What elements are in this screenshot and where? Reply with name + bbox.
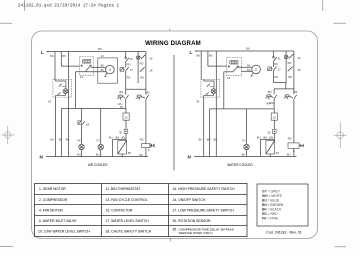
svg-text:15: 15	[124, 115, 128, 119]
svg-text:BU: BU	[207, 138, 211, 142]
wire return run	[59, 109, 70, 157]
svg-text:RD = RED: RD = RED	[262, 212, 278, 216]
wire control bus horizontal	[61, 108, 126, 110]
svg-text:BU: BU	[101, 68, 105, 72]
switch 27 low pressure safety right	[268, 67, 281, 83]
wire ON/OFF to neutral bar	[51, 97, 56, 157]
svg-text:BU: BU	[242, 152, 246, 156]
svg-text:13: 13	[227, 76, 231, 80]
switch 11 bin thermostat right	[273, 57, 281, 67]
svg-text:16: 16	[149, 57, 153, 61]
svg-text:16: 16	[297, 56, 301, 60]
svg-text:18: 18	[297, 68, 301, 72]
svg-text:30: 30	[119, 130, 123, 134]
svg-text:RD: RD	[140, 137, 144, 141]
coil 15 contactor	[123, 113, 129, 120]
svg-text:13: 13	[80, 75, 84, 79]
wire drop to fan cycle control	[61, 52, 79, 67]
motor 1 gear motor right (lamp symbol)	[242, 109, 250, 157]
svg-text:PK: PK	[120, 105, 124, 109]
svg-text:GY: GY	[242, 138, 246, 142]
wire return run right	[207, 109, 218, 157]
control 13 fan cycle control (dashed box)	[80, 56, 94, 79]
svg-text:27: 27	[278, 68, 282, 72]
svg-text:L: L	[190, 50, 193, 55]
svg-text:BU: BU	[59, 138, 63, 142]
wire drop to ON/OFF switch	[50, 52, 55, 80]
wire control bus horizontal right	[210, 108, 275, 110]
wire top phase BN right	[196, 47, 294, 52]
valve 6 condenser water valve right	[287, 137, 304, 157]
relay 35 compressor time delay right	[266, 141, 279, 157]
svg-text:PK: PK	[77, 138, 81, 142]
wire fan feed upper	[91, 63, 106, 67]
switch 10 low water level right (float)	[265, 89, 277, 109]
node L (line terminal, right circuit)	[190, 50, 198, 55]
wire drop to thermostat chain right	[273, 51, 275, 57]
svg-text:10. LOW WATER LEVEL SWITCH: 10. LOW WATER LEVEL SWITCH	[38, 230, 90, 234]
svg-text:BU: BU	[247, 68, 251, 72]
svg-text:RD: RD	[288, 137, 292, 141]
wire bypass branch	[109, 136, 126, 157]
wire fan-control drop	[75, 72, 77, 109]
svg-text:WATER COOLED: WATER COOLED	[227, 163, 253, 167]
svg-text:PK = PINK: PK = PINK	[262, 216, 279, 220]
switch 18 chute safety chain B	[140, 52, 153, 95]
svg-text:BU: BU	[214, 138, 218, 142]
svg-text:GY = GREY: GY = GREY	[262, 189, 281, 193]
wire to contactor right	[273, 109, 275, 113]
svg-text:GY: GY	[96, 138, 100, 142]
svg-text:24: 24	[48, 100, 52, 104]
coil 15 contactor right	[269, 101, 277, 120]
registration mark right	[334, 122, 347, 148]
svg-text:BK: BK	[294, 90, 298, 94]
colour code box	[257, 184, 308, 226]
wire junction level switches	[126, 88, 146, 90]
svg-text:11: 11	[130, 57, 133, 61]
svg-text:16. HIGH PRESSURE SAFETY SWI: 16. HIGH PRESSURE SAFETY SWITCH	[173, 187, 236, 191]
wire junction level switches right	[274, 88, 294, 90]
svg-text:35: 35	[128, 151, 132, 155]
svg-text:BN: BN	[196, 53, 200, 57]
svg-text:BN: BN	[288, 75, 292, 79]
switch 17 water level right (float)	[284, 90, 298, 143]
svg-text:WIRING DIAGRAM: WIRING DIAGRAM	[145, 40, 201, 47]
switch 17 water level (right float)	[136, 90, 150, 143]
wire compressor feed lower right	[241, 68, 252, 72]
svg-text:11: 11	[278, 57, 281, 61]
svg-text:27. LOW PRESSURE SAFETY SWITC: 27. LOW PRESSURE SAFETY SWITCH	[173, 208, 235, 212]
svg-text:24: 24	[196, 100, 200, 104]
svg-text:BU: BU	[66, 138, 70, 142]
svg-text:BN: BN	[270, 136, 274, 140]
svg-text:RD: RD	[140, 61, 144, 65]
switch 18 chute safety right chain	[288, 51, 301, 94]
svg-text:Cod. 241182 - Rev. 01: Cod. 241182 - Rev. 01	[266, 231, 302, 235]
motor 4 fan motor	[104, 65, 114, 76]
svg-text:BN: BN	[122, 136, 126, 140]
svg-text:6. WATER INLET VALVE: 6. WATER INLET VALVE	[39, 219, 77, 223]
svg-text:4. FAN MOTOR: 4. FAN MOTOR	[39, 208, 63, 212]
svg-text:RD: RD	[127, 75, 131, 79]
svg-text:RD: RD	[274, 62, 278, 66]
svg-text:BN: BN	[50, 54, 54, 58]
sensor 30 rotation sensor right	[267, 129, 276, 140]
motor 2 compressor right	[250, 65, 260, 76]
relay 35 compressor time delay	[118, 141, 131, 157]
wire neutral bottom	[46, 156, 148, 158]
svg-text:BK: BK	[101, 63, 105, 67]
svg-text:BU: BU	[287, 153, 291, 157]
svg-text:BU: BU	[140, 153, 144, 157]
svg-text:18. CHUTE SAFETY SWITCH: 18. CHUTE SAFETY SWITCH	[106, 230, 152, 234]
svg-text:BN: BN	[146, 90, 150, 94]
svg-text:BU = BLUE: BU = BLUE	[262, 198, 280, 202]
divider between circuits	[173, 55, 175, 171]
svg-text:13. FAN CYCLE CONTROL: 13. FAN CYCLE CONTROL	[106, 198, 148, 202]
wire fan-control drop right	[224, 72, 233, 109]
svg-text:241182_01.qxd 22/10/2014 17:: 241182_01.qxd 22/10/2014 17:24 Pagina 1	[18, 3, 120, 8]
svg-text:WH = WHITE: WH = WHITE	[262, 194, 283, 198]
wire contactor to sensor	[125, 120, 127, 129]
svg-text:30: 30	[267, 130, 271, 134]
wire top phase BN	[47, 47, 146, 52]
svg-text:18: 18	[86, 122, 90, 126]
valve 6 water inlet coil	[140, 137, 155, 157]
svg-text:WH: WH	[269, 101, 273, 105]
switch 18 chute safety (connector + blade)	[78, 109, 90, 145]
svg-text:BU: BU	[257, 136, 261, 140]
wire neutral bottom right	[194, 156, 297, 158]
svg-text:RD: RD	[127, 63, 131, 67]
svg-text:11. BIN THERMOSTAT: 11. BIN THERMOSTAT	[106, 187, 141, 191]
wire drop to thermostat chain	[125, 52, 127, 58]
svg-text:27: 27	[130, 68, 134, 72]
valve coil 6 water inlet (left lamp symbol)	[77, 138, 84, 156]
wire compressor feed upper right	[238, 63, 252, 67]
page frame	[32, 31, 318, 239]
svg-text:BU: BU	[51, 138, 55, 142]
svg-text:35: 35	[276, 151, 280, 155]
svg-text:BN: BN	[120, 90, 124, 94]
wire ON/OFF to neutral right	[199, 97, 204, 156]
svg-text:RD: RD	[274, 75, 278, 79]
svg-text:L: L	[41, 50, 44, 55]
svg-text:RD: RD	[288, 61, 292, 65]
wire fan feed lower	[76, 68, 107, 72]
svg-text:BN: BN	[98, 47, 102, 51]
wire neutral through-run	[68, 52, 70, 157]
svg-text:BN: BN	[246, 47, 250, 51]
svg-text:BN = BROWN: BN = BROWN	[262, 203, 284, 207]
svg-text:BK: BK	[247, 63, 251, 67]
svg-text:BN: BN	[209, 53, 213, 57]
svg-text:BN: BN	[268, 90, 272, 94]
switch 24 ON/OFF right (dashed enclosure with lamp)	[196, 79, 219, 103]
control 13 fan cycle control right (dashed box)	[227, 58, 242, 81]
svg-text:BN: BN	[62, 54, 66, 58]
svg-text:BN: BN	[116, 136, 120, 140]
svg-text:BK = BLACK: BK = BLACK	[262, 207, 282, 211]
svg-text:15: 15	[273, 115, 277, 119]
wire drop to fan cycle control right	[208, 51, 227, 66]
registration mark left	[2, 126, 15, 144]
svg-text:BN: BN	[140, 76, 144, 80]
svg-text:15. CONTACTOR: 15. CONTACTOR	[106, 208, 133, 212]
enclosure fan unit (solid box)	[98, 54, 118, 83]
svg-text:AIR COOLED: AIR COOLED	[88, 163, 108, 167]
switch 16 high pressure safety right	[285, 51, 301, 83]
svg-text:SERVICE STAFF ONLY): SERVICE STAFF ONLY)	[179, 231, 213, 235]
switch 24 ON/OFF (dashed enclosure with lamp)	[48, 79, 72, 103]
wire drop to ON/OFF right	[196, 51, 201, 79]
switch 16 high pressure safety	[137, 52, 153, 84]
svg-text:2. COMPRESSOR: 2. COMPRESSOR	[39, 198, 68, 202]
svg-text:1. GEAR MOTOR: 1. GEAR MOTOR	[39, 187, 66, 191]
switch 11 bin thermostat	[125, 57, 133, 67]
switch 17 water level switch (float)	[117, 89, 129, 108]
svg-text:BN: BN	[264, 136, 268, 140]
svg-text:30. ROTATION SENSOR: 30. ROTATION SENSOR	[173, 219, 211, 223]
svg-text:BU: BU	[96, 152, 100, 156]
svg-text:35.: 35.	[173, 227, 178, 231]
wire neutral through-run right	[215, 51, 217, 157]
sensor 30 rotation sensor	[119, 129, 128, 140]
switch 27 low pressure safety (connector + blade)	[120, 67, 133, 89]
motor 1 gear motor (lamp symbol)	[96, 109, 104, 157]
wire jog to level switches right	[274, 83, 286, 89]
svg-text:BU: BU	[199, 138, 203, 142]
svg-text:BU: BU	[109, 136, 113, 140]
svg-text:24. ON/OFF SWITCH: 24. ON/OFF SWITCH	[173, 198, 206, 202]
svg-text:17. WATER LEVEL SWITCH: 17. WATER LEVEL SWITCH	[106, 219, 150, 223]
svg-text:BU: BU	[77, 152, 81, 156]
wire contactor to sensor right	[273, 120, 275, 129]
svg-text:GY: GY	[101, 54, 105, 58]
wire bypass branch right	[257, 136, 274, 157]
wire to contactor	[120, 105, 126, 113]
node L (line terminal, left circuit)	[41, 50, 49, 55]
svg-text:18: 18	[149, 68, 153, 72]
